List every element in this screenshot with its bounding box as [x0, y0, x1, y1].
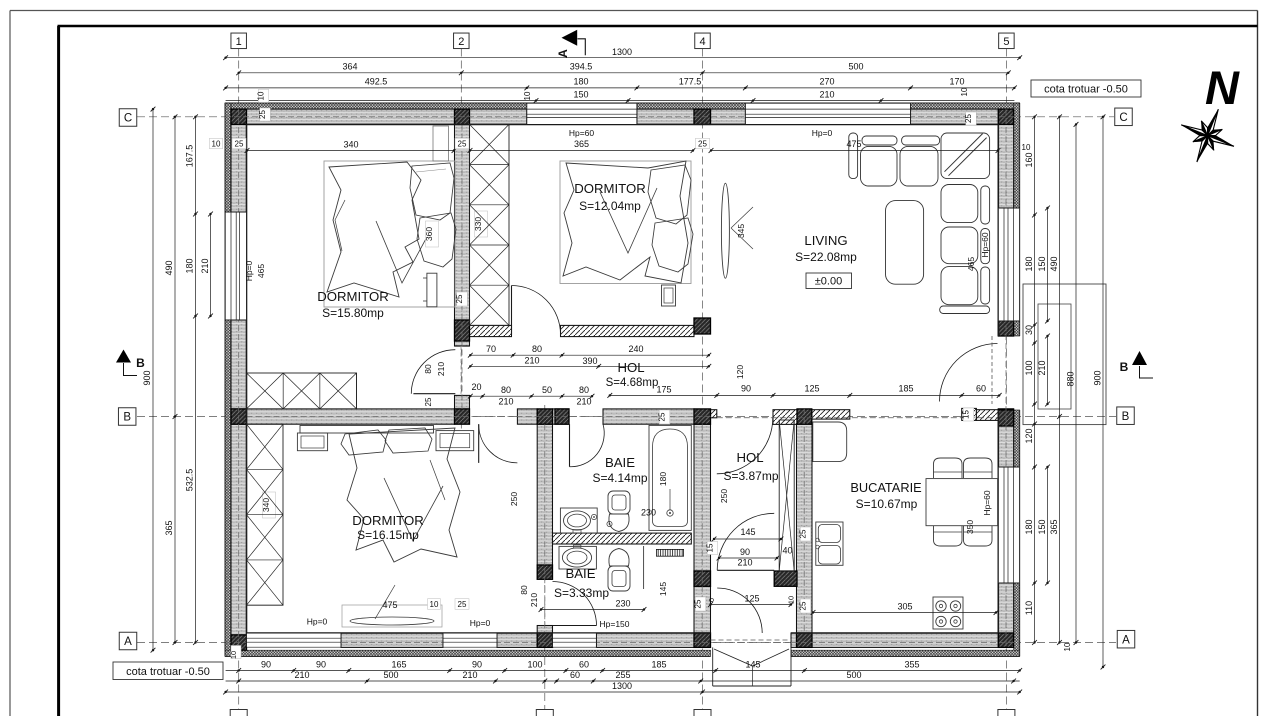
door hol-living opening arc [717, 418, 773, 474]
bed 3 dormitor3 headboard [300, 426, 434, 434]
svg-text:S=4.14mp: S=4.14mp [592, 471, 647, 485]
coffee table [886, 201, 924, 285]
dim bottom row3 1300 [226, 691, 1020, 693]
svg-text:B: B [1120, 360, 1129, 374]
svg-text:cota trotuar -0.50: cota trotuar -0.50 [126, 666, 210, 678]
labels 25 wall tops [455, 138, 469, 149]
svg-text:10: 10 [1063, 642, 1072, 651]
svg-text:250: 250 [719, 489, 729, 503]
svg-text:500: 500 [848, 62, 863, 72]
svg-text:500: 500 [846, 670, 861, 680]
svg-text:210: 210 [294, 670, 309, 680]
svg-text:90: 90 [741, 384, 751, 394]
svg-text:1: 1 [236, 36, 242, 48]
living sofa [849, 133, 858, 179]
wardrobe dormitor3 (X boxes) [247, 424, 284, 605]
svg-text:A: A [1122, 634, 1130, 646]
bed 2 blanket [563, 161, 688, 283]
svg-text:210: 210 [524, 356, 539, 366]
svg-text:120: 120 [1024, 428, 1034, 443]
svg-text:A: A [556, 49, 570, 58]
svg-text:100: 100 [1024, 360, 1034, 375]
window W6 bottom dormitor3 a [247, 633, 342, 647]
svg-text:BAIE: BAIE [565, 566, 595, 581]
wardrobe dormitor2 (X boxes) [470, 124, 510, 325]
dim dormitor2 365 [470, 150, 693, 152]
grid bubble 4 top [695, 33, 711, 49]
svg-text:70: 70 [486, 344, 496, 354]
bed 1 pillows [410, 163, 454, 220]
wall axis dashed centerlines [225, 116, 1020, 118]
kitchen dims [800, 527, 811, 541]
svg-text:210: 210 [462, 670, 477, 680]
dim bottom row1 [226, 670, 1020, 672]
door living terrace [940, 344, 998, 402]
svg-text:880: 880 [1066, 371, 1076, 386]
svg-text:165: 165 [391, 660, 406, 670]
svg-text:2: 2 [458, 36, 464, 48]
exterior wall: right insulation strips [1014, 103, 1020, 208]
hol tall cabinet (X) [779, 420, 794, 571]
B row partitions east of grid4 (hatched) [711, 410, 717, 418]
svg-text:180: 180 [1024, 256, 1034, 271]
window W3 left dormitor1 [225, 212, 247, 320]
bed1 dim 360 [426, 221, 439, 247]
svg-text:DORMITOR: DORMITOR [317, 289, 389, 304]
section marker A top [562, 30, 578, 46]
svg-text:210: 210 [436, 362, 446, 376]
svg-text:475: 475 [846, 139, 861, 149]
bed 3 pillows [341, 430, 386, 455]
svg-text:25: 25 [458, 140, 467, 149]
svg-text:185: 185 [898, 384, 913, 394]
svg-text:150: 150 [1037, 519, 1047, 534]
svg-text:270: 270 [819, 77, 834, 87]
svg-text:S=10.67mp: S=10.67mp [856, 497, 918, 511]
interior wall kitchen-west [797, 424, 813, 633]
svg-text:175: 175 [656, 385, 671, 395]
grid bubble 1 top [231, 33, 247, 49]
kitchen sink [816, 522, 843, 565]
baie1 dims [659, 410, 670, 424]
svg-text:1300: 1300 [612, 47, 632, 57]
svg-text:25: 25 [455, 294, 464, 303]
svg-text:180: 180 [658, 472, 668, 486]
svg-text:25: 25 [458, 600, 467, 609]
interior wall 2 (dormitor1/dormitor2) [455, 124, 470, 346]
dim left col1 900 [152, 109, 154, 650]
svg-text:0: 0 [707, 598, 716, 602]
interior wall hol-west (grid4 lower) [694, 424, 711, 571]
svg-text:Hp=60: Hp=60 [569, 128, 595, 138]
svg-text:230: 230 [641, 508, 656, 518]
svg-text:900: 900 [1093, 370, 1103, 385]
dim dormitor1 340 [247, 150, 454, 152]
svg-text:Hp=0: Hp=0 [812, 128, 833, 138]
svg-text:cota trotuar -0.50: cota trotuar -0.50 [1044, 84, 1128, 96]
B row dims [610, 394, 999, 396]
svg-text:492.5: 492.5 [365, 77, 388, 87]
terrace steps east [1023, 284, 1106, 425]
grid bubble C right [1115, 108, 1133, 126]
svg-text:364: 364 [342, 62, 357, 72]
interior wall B row (left) [247, 409, 455, 424]
svg-text:B: B [1122, 411, 1130, 423]
svg-text:305: 305 [897, 602, 912, 612]
svg-text:Hp=0: Hp=0 [307, 617, 328, 627]
svg-text:HOL: HOL [617, 360, 644, 375]
svg-text:500: 500 [383, 670, 398, 680]
toilet 2 [609, 549, 629, 567]
section marker B right [1132, 351, 1147, 365]
exterior wall: bottom masonry segments [341, 633, 443, 647]
cota trotuar bottom left [113, 662, 223, 680]
svg-text:365: 365 [164, 520, 174, 535]
dim top row4 [226, 100, 1015, 102]
svg-text:475: 475 [382, 600, 397, 610]
svg-text:80: 80 [501, 385, 511, 395]
baie2 dims [541, 609, 644, 611]
svg-text:60: 60 [570, 670, 580, 680]
svg-text:S=12.04mp: S=12.04mp [579, 199, 641, 213]
svg-text:C: C [1119, 112, 1127, 124]
svg-text:Hp=0: Hp=0 [244, 260, 254, 281]
svg-text:A: A [124, 636, 132, 648]
svg-text:90: 90 [740, 547, 750, 557]
svg-text:125: 125 [804, 384, 819, 394]
svg-text:60: 60 [579, 660, 589, 670]
exterior wall: left masonry segments [231, 124, 247, 212]
svg-text:90: 90 [316, 660, 326, 670]
svg-text:150: 150 [573, 90, 588, 100]
svg-text:80: 80 [519, 585, 529, 595]
exterior wall: bottom insulation strips [225, 650, 711, 656]
dim bottom row2 [226, 680, 1020, 682]
svg-text:100: 100 [527, 660, 542, 670]
porch entrance [712, 647, 714, 686]
svg-text:Hp=60: Hp=60 [982, 490, 992, 516]
svg-text:25: 25 [424, 397, 433, 406]
svg-text:145: 145 [745, 660, 760, 670]
svg-text:25: 25 [799, 529, 808, 538]
hol dims row2 [470, 365, 709, 367]
corridor dims [711, 604, 792, 606]
svg-text:5: 5 [1003, 36, 1009, 48]
svg-text:25: 25 [258, 110, 267, 119]
svg-text:167.5: 167.5 [185, 145, 195, 168]
svg-text:250: 250 [509, 492, 519, 506]
sink baie1 [560, 508, 597, 533]
grid bubble A right [1117, 630, 1135, 648]
svg-text:365: 365 [574, 139, 589, 149]
bed 2 nightstand [662, 285, 676, 306]
svg-text:Hp=0: Hp=0 [470, 618, 491, 628]
dim top row3 [226, 87, 1015, 89]
grid axis dashed lines [238, 49, 240, 710]
svg-text:10: 10 [229, 651, 238, 659]
svg-text:10: 10 [1022, 143, 1031, 152]
bed 3 nightstand left [297, 433, 327, 451]
grid bubbles bottom (clipped) [230, 710, 247, 716]
svg-text:25: 25 [235, 140, 244, 149]
svg-text:25: 25 [799, 601, 808, 610]
window W1 top dormitor2 [527, 103, 637, 125]
svg-text:490: 490 [1049, 256, 1059, 271]
svg-text:Hp=60: Hp=60 [980, 232, 990, 258]
towel radiator [656, 549, 683, 556]
svg-text:360: 360 [424, 227, 434, 241]
svg-text:145: 145 [658, 582, 668, 596]
dim right col5 900 [1102, 117, 1104, 667]
svg-text:10: 10 [523, 91, 532, 100]
svg-text:BUCATARIE: BUCATARIE [850, 480, 921, 495]
svg-text:25: 25 [964, 114, 973, 123]
bed 1 head cabinet [433, 126, 449, 161]
svg-text:350: 350 [965, 520, 975, 534]
svg-text:C: C [124, 113, 132, 125]
partition baie divider (hatched) [553, 533, 692, 544]
svg-text:180: 180 [185, 258, 195, 273]
bed 2 dormitor2 frame [560, 161, 691, 284]
dormitor3 dim 340 wardrobe [263, 492, 276, 518]
svg-text:15: 15 [962, 410, 971, 419]
svg-text:170: 170 [949, 77, 964, 87]
kitchen chairs [934, 458, 963, 478]
svg-text:Hp=150: Hp=150 [599, 619, 629, 629]
outer face lines exterior walls [225, 102, 1020, 104]
svg-text:177.5: 177.5 [679, 77, 702, 87]
svg-text:125: 125 [744, 594, 759, 604]
svg-text:40: 40 [782, 546, 792, 556]
hol dims row1 [470, 354, 709, 356]
svg-text:180: 180 [1024, 519, 1034, 534]
svg-text:120: 120 [735, 365, 745, 379]
svg-text:465: 465 [256, 264, 266, 278]
svg-text:50: 50 [542, 385, 552, 395]
baie2 partition line [643, 546, 645, 589]
svg-text:90: 90 [472, 660, 482, 670]
exterior wall: top masonry segments [247, 109, 455, 124]
grid bubble C left [119, 109, 137, 127]
svg-text:S=3.87mp: S=3.87mp [723, 469, 778, 483]
window W7 bottom dormitor3 b [443, 633, 497, 647]
door baie1 [569, 424, 571, 467]
svg-text:180: 180 [573, 77, 588, 87]
svg-text:4: 4 [699, 36, 705, 48]
toilet 1 [608, 491, 630, 514]
kitchen counter [813, 422, 847, 462]
svg-text:20: 20 [471, 382, 481, 392]
window W5 right kitchen [998, 467, 1019, 583]
svg-text:10: 10 [257, 91, 266, 100]
dim right col3 [1059, 117, 1061, 643]
svg-text:25: 25 [694, 599, 703, 608]
svg-text:340: 340 [261, 498, 271, 512]
bed 1 nightstand [427, 273, 437, 307]
svg-text:150: 150 [1037, 256, 1047, 271]
grid bubble 2 top [454, 33, 470, 49]
bed 3 blanket [347, 428, 460, 562]
svg-text:25: 25 [698, 140, 707, 149]
dim left col2 [174, 117, 176, 643]
svg-text:B: B [123, 412, 131, 424]
grid bubble B right [1117, 407, 1135, 425]
door dormitor2 [511, 286, 513, 335]
dormitor2 dim 330 [475, 211, 488, 237]
exterior wall: left insulation strips [225, 103, 231, 212]
svg-text:DORMITOR: DORMITOR [352, 513, 424, 528]
bold inner face lines exterior walls [247, 123, 999, 125]
svg-text:900: 900 [142, 370, 152, 385]
wardrobe dormitor1 (X boxes) [247, 373, 357, 409]
svg-text:210: 210 [576, 397, 591, 407]
svg-text:210: 210 [498, 397, 513, 407]
door dormitor1 [413, 393, 455, 395]
svg-text:N: N [1205, 61, 1240, 114]
svg-text:S=22.08mp: S=22.08mp [795, 250, 857, 264]
svg-text:15: 15 [706, 543, 715, 552]
svg-text:340: 340 [343, 140, 358, 150]
dim right col4 880 [1075, 124, 1077, 642]
svg-text:±0.00: ±0.00 [815, 276, 842, 288]
stove hob [933, 597, 963, 629]
svg-text:BAIE: BAIE [605, 455, 635, 470]
svg-text:145: 145 [740, 527, 755, 537]
window W8 bottom baie2 Hp150 [553, 633, 597, 647]
pointer 345 living [731, 207, 753, 228]
svg-text:532.5: 532.5 [185, 469, 195, 492]
svg-text:240: 240 [628, 344, 643, 354]
svg-text:60: 60 [976, 384, 986, 394]
svg-text:30: 30 [1024, 325, 1034, 335]
svg-text:255: 255 [615, 670, 630, 680]
svg-text:80: 80 [532, 344, 542, 354]
svg-text:S=16.15mp: S=16.15mp [357, 528, 419, 542]
grid bubble B left [118, 408, 136, 426]
svg-text:LIVING: LIVING [804, 233, 847, 248]
svg-text:210: 210 [819, 90, 834, 100]
dim right col2 [1047, 208, 1049, 321]
dim top row1 1300 [226, 57, 1020, 59]
svg-text:210: 210 [737, 558, 752, 568]
page frame [10, 10, 1258, 12]
hol dims row3 [470, 395, 592, 397]
kitchen table [926, 479, 998, 526]
svg-text:210: 210 [529, 593, 539, 607]
svg-text:HOL: HOL [736, 450, 763, 465]
compass star [1208, 109, 1219, 135]
dim left col3 [195, 117, 197, 643]
svg-text:90: 90 [261, 660, 271, 670]
bed 1 dormitor1 frame [324, 161, 455, 307]
bed 3 nightstand right [436, 431, 474, 451]
partition dormitor2 south (hatched) [470, 325, 512, 336]
svg-text:355: 355 [904, 660, 919, 670]
bed 2 pillows [648, 165, 691, 224]
svg-text:230: 230 [615, 599, 630, 609]
svg-text:394.5: 394.5 [570, 62, 593, 72]
svg-text:25: 25 [658, 412, 667, 421]
faucet symbols baie1 [591, 514, 596, 519]
exterior wall: top insulation strips [225, 103, 527, 109]
svg-text:10: 10 [430, 600, 439, 609]
svg-text:S=4.68mp: S=4.68mp [606, 377, 659, 389]
svg-text:490: 490 [164, 260, 174, 275]
interior wall 3 (dormitor3/baie) [537, 424, 552, 565]
cota trotuar top right [1031, 80, 1141, 97]
svg-text:210: 210 [200, 258, 210, 273]
exterior wall: right masonry segments [998, 124, 1013, 208]
svg-text:10: 10 [212, 140, 221, 149]
svg-text:365: 365 [1049, 519, 1059, 534]
svg-text:S=3.33mp: S=3.33mp [554, 586, 609, 600]
svg-text:10: 10 [960, 87, 969, 96]
svg-text:80: 80 [579, 385, 589, 395]
section marker B left [116, 350, 131, 363]
svg-text:110: 110 [1024, 601, 1034, 615]
svg-text:185: 185 [651, 660, 666, 670]
svg-text:10: 10 [787, 596, 796, 604]
svg-text:345: 345 [736, 224, 746, 238]
svg-text:160: 160 [1024, 152, 1034, 167]
svg-text:80: 80 [423, 364, 433, 374]
columns (black) [231, 109, 247, 124]
dim right col1 [1034, 117, 1036, 643]
tv lens on wall4 [721, 183, 729, 278]
sheet border thick [58, 25, 1258, 28]
svg-text:390: 390 [582, 356, 597, 366]
door baie2 [553, 625, 597, 627]
door entrance arc [717, 588, 762, 633]
level box living [806, 273, 852, 289]
door hol south [717, 569, 774, 571]
grid bubble 5 top [999, 33, 1015, 49]
svg-text:B: B [136, 356, 145, 370]
window W2 top living [745, 103, 910, 125]
sink baie2 [559, 546, 596, 569]
window W4 right living [998, 208, 1019, 321]
grid bubble A left [119, 632, 137, 650]
bathtub [649, 425, 691, 530]
svg-text:S=15.80mp: S=15.80mp [322, 306, 384, 320]
svg-text:DORMITOR: DORMITOR [574, 181, 646, 196]
dim living 475 [711, 150, 998, 152]
svg-text:210: 210 [1037, 360, 1047, 375]
svg-text:1300: 1300 [612, 681, 632, 691]
dim left col4 [210, 214, 212, 316]
dim top row2 [239, 72, 1009, 74]
bed 1 blanket [327, 162, 421, 297]
svg-text:465: 465 [966, 257, 976, 271]
svg-text:330: 330 [473, 217, 483, 231]
radiator dormitor3 window [350, 617, 434, 625]
door dormitor3 [478, 424, 480, 463]
